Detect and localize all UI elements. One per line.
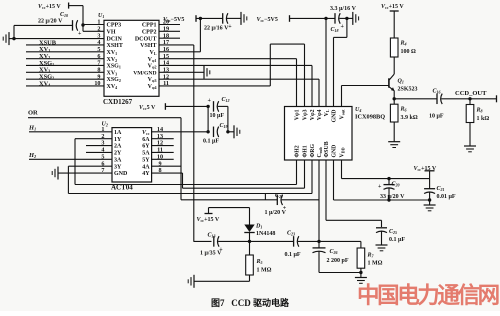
svg-text:Vφ3: Vφ3	[303, 109, 309, 120]
wire C10 to ground	[14, 25, 73, 38]
junction dot rail top C20	[387, 177, 390, 180]
svg-text:2A: 2A	[114, 144, 122, 150]
terminal tick +15V bottom	[205, 213, 213, 215]
svg-text:XV3: XV3	[107, 70, 118, 76]
label Q1 designator	[398, 79, 404, 85]
svg-text:Csub: Csub	[317, 146, 323, 157]
label C26 value	[327, 258, 349, 264]
wire +15V to R4	[393, 11, 395, 38]
wire U4 pin7 VDD to +15V rail	[342, 160, 430, 179]
label R4 designator	[400, 41, 407, 47]
node CCD_OUT label	[455, 90, 487, 97]
svg-text:1 kΩ: 1 kΩ	[477, 116, 490, 122]
IC U4 bottom pin labels	[295, 141, 346, 157]
junction dot C19 gnd side	[226, 130, 229, 133]
svg-text:1A: 1A	[114, 130, 122, 136]
wire VL pin16 to -5V5	[159, 18, 200, 51]
wire emitter down	[393, 91, 395, 99]
svg-text:GND: GND	[114, 171, 128, 177]
svg-text:4A: 4A	[142, 164, 150, 170]
svg-text:C18: C18	[331, 27, 339, 33]
terminal tick +15V	[68, 3, 70, 9]
svg-text:VM/GND: VM/GND	[133, 70, 156, 76]
svg-text:6Y: 6Y	[142, 144, 150, 150]
svg-text:0.1 μF: 0.1 μF	[285, 252, 301, 258]
label C25 value	[389, 237, 405, 243]
svg-text:CPP2: CPP2	[142, 29, 157, 35]
IC U1 designator	[98, 13, 104, 19]
ground (R5, sideways left)	[188, 275, 194, 288]
ground (C19, sideways right)	[234, 125, 240, 138]
svg-text:XSG2: XSG2	[107, 77, 121, 83]
svg-text:XSG1: XSG1	[107, 64, 121, 70]
stub wire pin18	[159, 37, 180, 39]
wire -5V5 second rail	[290, 17, 335, 19]
wire R4 to collector	[389, 57, 394, 80]
svg-text:VL: VL	[324, 109, 330, 116]
junction dot R8 node	[468, 97, 471, 100]
IC U2 designator	[102, 122, 108, 128]
svg-text:C19: C19	[220, 123, 228, 129]
junction dot gnd under C21	[428, 198, 431, 201]
svg-text:22 μ/20 V: 22 μ/20 V	[38, 18, 63, 24]
junction dot R7 bottom	[359, 271, 362, 274]
power +15V label (top left)	[38, 4, 61, 10]
svg-text:OR: OR	[28, 110, 38, 117]
wire C19 to ground	[228, 131, 234, 133]
wire C16 to output	[441, 98, 496, 100]
wire RG branch join	[264, 194, 266, 200]
svg-text:Vcc+15 V: Vcc+15 V	[381, 4, 404, 10]
ground (under R8)	[464, 146, 476, 152]
svg-text:R5: R5	[256, 259, 263, 265]
wire Vphi4 net (U1 pin11 to U4 pin2 with jog)	[159, 44, 305, 106]
junction dot C18 gnd side	[345, 17, 348, 20]
svg-text:C26: C26	[330, 249, 338, 255]
label C19 designator	[220, 123, 228, 129]
node H1 label	[28, 124, 36, 131]
IC U1 left pin numbers	[94, 19, 100, 87]
IC U4 top pin labels	[295, 109, 346, 123]
svg-text:3Y: 3Y	[114, 164, 122, 170]
svg-text:Vcc−5V5: Vcc−5V5	[163, 17, 184, 23]
label C23 value	[285, 252, 301, 258]
junction dot pin4 node	[317, 240, 320, 243]
resistor R4 100ohm	[390, 38, 398, 57]
wire U2 pin9 4A	[152, 165, 181, 167]
wire U2 pin14 Vcc	[152, 131, 209, 133]
IC U4 designator	[355, 107, 361, 113]
label R8 designator	[476, 108, 483, 114]
node H2 label	[28, 152, 36, 159]
wire C13 to diode node	[218, 240, 249, 242]
IC U1 part number CXD1267	[103, 98, 133, 106]
wire C20row left	[194, 240, 212, 242]
svg-text:Vcc5 V: Vcc5 V	[139, 105, 156, 111]
svg-text:Vφ2: Vφ2	[310, 109, 316, 120]
svg-text:1 MΩ: 1 MΩ	[257, 268, 272, 274]
svg-text:6A: 6A	[142, 137, 150, 143]
terminal tick CCD_OUT	[496, 95, 498, 102]
wire diode node to C23	[250, 240, 294, 242]
IC U2 right pin numbers	[157, 126, 163, 174]
label C22 designator	[275, 193, 283, 199]
wire to ground under C21	[429, 200, 431, 205]
svg-text:5A: 5A	[142, 151, 150, 157]
IC U4 ICX098BQ body	[285, 107, 353, 161]
svg-text:1N4148: 1N4148	[256, 231, 275, 237]
junction dot pin1 node	[81, 23, 84, 26]
capacitor C13 1u/35V	[214, 236, 224, 253]
IC U1 CXD1267 body	[104, 20, 159, 96]
svg-text:VL: VL	[149, 50, 156, 56]
wire C22 to U4 pin4 line	[282, 199, 319, 201]
svg-text:DCIN: DCIN	[107, 36, 123, 42]
svg-text:D1: D1	[255, 224, 262, 230]
svg-text:10 μF: 10 μF	[210, 113, 225, 119]
svg-text:GND: GND	[332, 110, 338, 123]
label C20 designator	[392, 182, 400, 188]
label C13 designator	[208, 232, 216, 238]
capacitor C26 2200pF	[313, 241, 326, 272]
resistor R6 3.9k	[390, 99, 398, 142]
power +5V label	[139, 105, 156, 111]
wire H1 to pin1	[29, 131, 112, 133]
svg-text:XSHT: XSHT	[107, 43, 123, 49]
svg-text:+: +	[78, 31, 82, 37]
IC U2 left pin numbers	[101, 126, 104, 174]
svg-text:Vcc−5V5: Vcc−5V5	[257, 17, 278, 23]
capacitor C20 33u/20V	[378, 179, 395, 200]
svg-text:10 μF: 10 μF	[429, 114, 444, 120]
capacitor C19 0.1uF	[214, 127, 219, 138]
ground (under R7)	[355, 278, 367, 284]
ground (under C25)	[376, 245, 388, 251]
svg-text:2 200 pF: 2 200 pF	[327, 258, 349, 264]
wire C26/R7 bottom join	[319, 272, 361, 274]
terminal tick -5V5 second	[289, 15, 291, 22]
resistor R5 1M	[246, 241, 254, 281]
junction dot emitter node	[393, 97, 396, 100]
svg-text:R7: R7	[367, 253, 375, 259]
svg-text:22 μ/16 V: 22 μ/16 V	[204, 25, 229, 31]
ground (under C21)	[424, 205, 436, 211]
label R8 value	[477, 116, 490, 122]
wire R5 to ground	[194, 280, 250, 282]
stub wire pin20	[159, 24, 180, 26]
IC U2 part number ACT04	[111, 183, 133, 191]
svg-text:2Y: 2Y	[114, 151, 122, 157]
label R6 designator	[400, 107, 407, 113]
svg-text:33 μ/20 V: 33 μ/20 V	[380, 194, 405, 200]
svg-text:+: +	[228, 24, 232, 30]
svg-text:0.1 μF: 0.1 μF	[389, 237, 405, 243]
svg-text:VH: VH	[107, 29, 116, 35]
label R6 value	[401, 115, 418, 121]
power -5V5 label (second)	[257, 17, 278, 23]
svg-text:3.9 kΩ: 3.9 kΩ	[401, 115, 418, 121]
IC U4 part number ICX098BQ	[355, 114, 385, 121]
wire C12 to corner	[218, 106, 228, 131]
capacitor C10 22u/20V	[60, 12, 82, 37]
svg-text:Vcc+15 V: Vcc+15 V	[38, 4, 61, 10]
label C16 designator	[433, 89, 441, 95]
junction dot ground node	[12, 37, 15, 40]
wire 4Y rail to U4 H1	[152, 160, 305, 188]
power -5V5 label (first)	[163, 17, 184, 23]
svg-text:+: +	[341, 24, 345, 30]
svg-text:C12: C12	[222, 97, 230, 103]
svg-text:H1: H1	[28, 124, 36, 131]
svg-text:Vφ2: Vφ2	[148, 64, 157, 70]
capacitor C21 0.01uF	[424, 179, 435, 200]
junction dot +5V	[206, 105, 209, 108]
ground (pin13, sideways right)	[204, 66, 210, 79]
label D1 designator	[255, 224, 262, 230]
power +15V label (bottom)	[197, 217, 220, 223]
wire U4 pin6 GND rail	[334, 160, 430, 200]
capacitor C23 0.1uF	[294, 236, 299, 247]
wire C23 to pin4 node	[298, 240, 319, 242]
IC U1 right pin labels	[133, 23, 157, 90]
svg-text:VDD: VDD	[340, 147, 346, 157]
stub wire U2 pin3	[86, 145, 112, 147]
terminal tick -5V5 first	[195, 15, 197, 22]
label C13 value	[200, 251, 222, 257]
svg-text:ΦH2: ΦH2	[295, 145, 301, 157]
wire OR line	[28, 118, 181, 200]
svg-text:+: +	[208, 98, 212, 104]
svg-text:C20: C20	[392, 182, 400, 188]
IC U1 left pin labels	[107, 23, 123, 90]
svg-text:GND: GND	[332, 145, 338, 158]
power +15V label (top right)	[381, 4, 404, 10]
wire 3Y rail to U4 RG	[68, 160, 312, 194]
svg-text:C16: C16	[433, 89, 441, 95]
svg-text:H2: H2	[28, 152, 36, 159]
svg-text:U4: U4	[355, 107, 361, 113]
wire -5V5 rail to cap	[196, 17, 223, 19]
capacitor C11 22u/16V	[223, 13, 233, 30]
capacitor C22 1u/20V	[277, 195, 287, 212]
wire VSHT pin17 (long vertical)	[159, 45, 194, 242]
svg-text:XV4: XV4	[107, 84, 118, 90]
wire Vphi3 net (U1 pin12 to U4 pin4)	[159, 79, 319, 106]
svg-text:2SK523: 2SK523	[398, 87, 418, 93]
resistor R8 1k	[466, 99, 474, 146]
svg-text:CPP3: CPP3	[107, 23, 122, 29]
stub wire pin19	[159, 30, 180, 32]
svg-text:R8: R8	[476, 108, 483, 114]
wire VM/GND pin13	[159, 71, 204, 73]
label R4 value	[401, 49, 417, 55]
svg-text:Q1: Q1	[398, 79, 404, 85]
svg-text:C10: C10	[60, 12, 68, 18]
ground (under R6)	[388, 142, 400, 148]
label C10 value	[38, 18, 63, 24]
capacitor C12 10uF	[208, 98, 219, 112]
svg-text:Vφ3: Vφ3	[148, 77, 157, 83]
label C21 value	[437, 194, 456, 200]
wire U4 pin5 VL	[325, 18, 327, 106]
IC U2 ACT04 body	[112, 128, 152, 182]
label C20 value	[380, 194, 405, 200]
svg-text:XV4: XV4	[39, 80, 50, 87]
svg-text:0.1 μF: 0.1 μF	[203, 139, 219, 145]
wire emitter to C16	[394, 98, 437, 100]
label C11 value	[204, 25, 229, 31]
svg-text:C23: C23	[287, 231, 295, 237]
svg-text:ΦSUB: ΦSUB	[324, 141, 330, 157]
resistor R7 1M	[357, 241, 365, 272]
IC U2 right pin labels	[142, 130, 150, 177]
wire +5V down to U2 pin14	[207, 106, 209, 131]
wire Vphi1 net (U1 pin15 to U4 pin1)	[159, 59, 297, 107]
svg-text:Vφ4: Vφ4	[317, 109, 323, 120]
label R5 designator	[256, 259, 263, 265]
junction dot U4 VL	[324, 17, 327, 20]
label R7 value	[368, 261, 383, 267]
diode D1 1N4148	[244, 225, 254, 242]
wire pin4 node to R7	[319, 240, 361, 242]
svg-text:100 Ω: 100 Ω	[401, 49, 417, 55]
svg-text:C22: C22	[275, 193, 283, 199]
junction dot rail bot C20	[387, 198, 390, 201]
svg-text:图7 CCD 驱动电路: 图7 CCD 驱动电路	[211, 297, 290, 308]
wire H2 to pin5	[29, 158, 112, 160]
svg-text:ΦH1: ΦH1	[303, 145, 309, 157]
wire Vphi2 net (U1 pin14 to U4 pin3)	[159, 65, 312, 106]
svg-text:3A: 3A	[114, 157, 122, 163]
wire +5V rail	[165, 105, 208, 107]
svg-text:Vφ1: Vφ1	[295, 109, 301, 120]
label C21 designator	[437, 186, 445, 192]
label C12 value	[210, 113, 225, 119]
svg-text:CCD_OUT: CCD_OUT	[455, 90, 487, 97]
wire 1Y rail to U4 H2	[75, 139, 297, 185]
junction dot diode node	[248, 240, 251, 243]
svg-text:R6: R6	[400, 107, 407, 113]
svg-text:CXD1267: CXD1267	[103, 98, 133, 106]
svg-text:Vout: Vout	[340, 109, 346, 120]
label C18 value	[330, 6, 357, 12]
svg-text:ΦRG: ΦRG	[310, 144, 316, 158]
wire cap to ground	[227, 17, 241, 19]
wire +15V to pin1/2	[69, 6, 104, 32]
ground (top, sideways right)	[241, 12, 247, 25]
svg-text:1Y: 1Y	[114, 137, 122, 143]
svg-text:DCOUT: DCOUT	[135, 36, 157, 42]
svg-text:VSHT: VSHT	[140, 43, 156, 49]
svg-text:XV1: XV1	[107, 50, 118, 56]
capacitor C25 0.1uF	[376, 228, 387, 233]
terminal tick +5V	[164, 103, 166, 110]
svg-text:C21: C21	[437, 186, 445, 192]
junction dot -5V5	[199, 17, 202, 20]
svg-text:1 MΩ: 1 MΩ	[368, 261, 383, 267]
label R7 designator	[367, 253, 375, 259]
wire +15V to diode	[209, 208, 250, 225]
svg-text:XV2: XV2	[107, 57, 118, 63]
svg-text:1 μ/20 V: 1 μ/20 V	[265, 210, 287, 216]
label C25 designator	[389, 229, 397, 235]
svg-text:C13: C13	[208, 232, 216, 238]
junction dot U2 vcc	[206, 130, 209, 133]
svg-text:3.3 μ/16 V: 3.3 μ/16 V	[330, 6, 357, 12]
capacitor C16 10uF out	[437, 94, 442, 105]
terminal tick +15V mid	[425, 170, 435, 172]
wire to ground under R7	[360, 273, 362, 278]
stub wires U2 pins 13-10	[152, 139, 174, 160]
stub wire U2 pin4	[86, 151, 112, 153]
ground (top right, sideways right)	[353, 12, 359, 25]
wire U2 pin7 GND	[58, 172, 112, 174]
watermark text	[357, 282, 499, 308]
svg-text:Vcc+15 V: Vcc+15 V	[197, 217, 220, 223]
label Q1 part	[398, 87, 418, 93]
svg-text:CPP1: CPP1	[142, 23, 157, 29]
svg-text:ICX098BQ: ICX098BQ	[355, 114, 385, 121]
IC U2 left pin labels	[114, 130, 128, 177]
label C18 designator	[331, 27, 339, 33]
node OR label	[28, 110, 38, 117]
wire U4 pin4 down	[318, 160, 320, 241]
wire DCIN pin3	[14, 38, 104, 40]
svg-text:1 μ/35 V: 1 μ/35 V	[200, 251, 222, 257]
wire rail4 (OR net) to C22	[181, 199, 277, 201]
svg-text:Vφ4: Vφ4	[148, 84, 157, 90]
label C19 value	[203, 139, 219, 145]
svg-text:Vφ1: Vφ1	[148, 57, 157, 63]
label C22 value	[265, 210, 287, 216]
label C23 designator	[287, 231, 295, 237]
svg-text:0.01 μF: 0.01 μF	[437, 194, 456, 200]
wire C25 to ground	[381, 231, 383, 245]
wire U4 pin6 GND jog	[334, 18, 347, 106]
svg-text:4Y: 4Y	[142, 171, 150, 177]
label R5 value	[257, 268, 272, 274]
power +15V label (mid right)	[414, 166, 437, 172]
svg-text:中国电力通信网: 中国电力通信网	[357, 282, 499, 308]
svg-text:+: +	[378, 184, 382, 190]
capacitor C18 3.3u/16V	[335, 13, 345, 30]
label D1 part	[256, 231, 275, 237]
input wires XSUB/XV/XSG	[26, 45, 104, 86]
transistor Q1 emitter	[389, 87, 395, 91]
svg-text:R4: R4	[400, 41, 407, 47]
wire cap C18 to ground	[339, 17, 353, 19]
svg-text:5Y: 5Y	[142, 157, 150, 163]
label C16 value	[429, 114, 444, 120]
label C12 designator	[222, 97, 230, 103]
wire +15V tick down	[429, 171, 431, 179]
ground (left edge)	[3, 32, 14, 45]
svg-text:Vcc: Vcc	[142, 130, 150, 136]
wire U4 pin5 SUB to C25	[326, 160, 382, 227]
input labels XSUB/XV/XSG	[39, 39, 57, 87]
terminal tick +15V right	[390, 10, 399, 12]
caption figure 7	[211, 297, 290, 308]
wire base from U4 Vout	[342, 86, 389, 107]
transistor Q1 base bar	[388, 78, 390, 87]
label C26 designator	[330, 249, 338, 255]
svg-text:C25: C25	[389, 229, 397, 235]
ground (U2 pin7, sideways left)	[52, 167, 58, 180]
IC U1 right pin numbers	[163, 19, 169, 87]
